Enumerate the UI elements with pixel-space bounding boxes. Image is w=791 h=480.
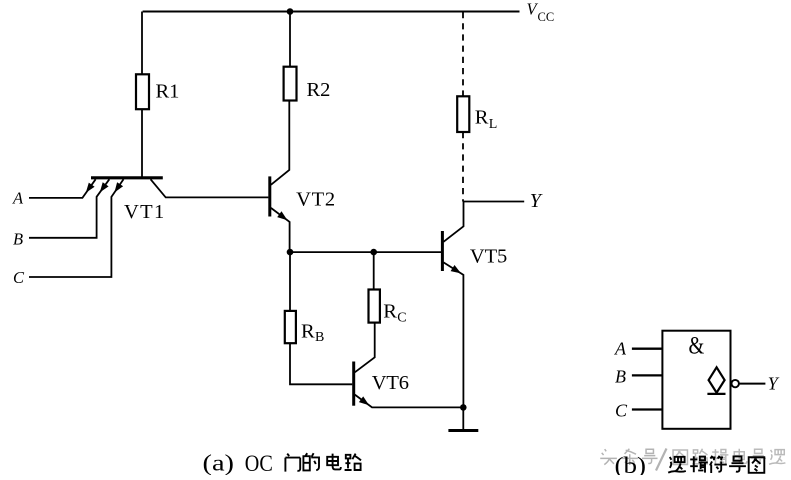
- label VCC: [527, 0, 555, 24]
- wire RL dashed top lead: [462, 12, 464, 96]
- wire VT6 collector to RC: [355, 323, 375, 373]
- node VT2 emitter junction: [287, 249, 294, 256]
- wire input A with VT1 emitter 1: [29, 179, 96, 198]
- logic gate box U1: [662, 331, 730, 429]
- wire VT6 emitter to ground node: [355, 395, 464, 408]
- svg-text:C: C: [615, 400, 628, 420]
- svg-text:B: B: [315, 330, 324, 345]
- wire ground lead: [462, 407, 464, 430]
- watermark trailing glyphs: [673, 449, 785, 465]
- transistor VT6 base bar: [352, 362, 355, 406]
- wire gate input C: [632, 408, 663, 410]
- wire R1 top lead: [141, 12, 143, 75]
- transistor VT2 base bar: [268, 176, 271, 216]
- node junction on VCC rail: [287, 8, 294, 15]
- wire RB bottom to VT6 base: [290, 343, 352, 384]
- node RC junction: [370, 249, 377, 256]
- arrowhead VT1 emitter 1: [86, 183, 95, 193]
- svg-text:Y: Y: [530, 190, 543, 212]
- wire node row to VT5 base: [290, 251, 443, 253]
- resistor RC: [369, 290, 380, 323]
- wire VT5 collector up to Y line: [444, 202, 464, 242]
- wire gate input A: [632, 348, 663, 350]
- svg-text:R: R: [475, 106, 489, 128]
- wire RL dashed bottom lead: [462, 132, 464, 202]
- wire gate input B: [632, 374, 663, 376]
- svg-text:R2: R2: [307, 79, 331, 101]
- inversion bubble: [732, 380, 739, 387]
- resistor RB: [285, 311, 296, 343]
- ground: [448, 429, 478, 432]
- svg-text:VT6: VT6: [372, 372, 409, 394]
- resistor R2: [284, 67, 297, 101]
- svg-text:VT2: VT2: [296, 189, 335, 211]
- svg-text:R: R: [301, 321, 315, 343]
- svg-text:L: L: [489, 117, 498, 132]
- wire VT5 emitter down to ground node: [444, 262, 464, 407]
- wire R1 bottom lead: [141, 109, 143, 177]
- wire output Y: [464, 201, 525, 203]
- label RB: [301, 321, 324, 345]
- wire RC top lead: [373, 252, 375, 289]
- arrowhead VT6 emitter: [359, 396, 369, 405]
- svg-text:VT1: VT1: [124, 201, 164, 223]
- wire VT1 collector to VT2 base: [151, 179, 269, 197]
- resistor RL: [457, 96, 469, 132]
- svg-text:VT5: VT5: [470, 246, 507, 268]
- svg-text:(a): (a): [203, 451, 235, 476]
- svg-text:B: B: [615, 366, 626, 386]
- svg-text:A: A: [12, 188, 24, 207]
- wire input B with VT1 emitter 2: [29, 179, 109, 238]
- transistor VT5 base bar: [441, 231, 444, 271]
- svg-text:OC: OC: [245, 451, 273, 475]
- wire RB top lead: [289, 252, 291, 311]
- wire VT2 emitter down to node: [271, 208, 290, 252]
- arrowhead VT2 emitter: [277, 211, 287, 220]
- svg-text:CC: CC: [538, 10, 555, 24]
- wire R2 top lead: [289, 12, 291, 67]
- arrowhead VT1 emitter 2: [100, 182, 109, 192]
- watermark slash: [656, 449, 667, 471]
- arrowhead VT5 emitter: [451, 265, 461, 273]
- caption (b) logic symbol: [615, 453, 765, 479]
- svg-text:A: A: [614, 339, 627, 359]
- wire VCC top rail: [143, 11, 520, 13]
- svg-text:C: C: [397, 311, 406, 326]
- open-collector diamond symbol: [709, 367, 725, 392]
- wire input C with VT1 emitter 3: [29, 179, 124, 277]
- wire VT2 collector to R2: [271, 101, 289, 185]
- arrowhead VT1 emitter 3: [114, 182, 123, 192]
- label RC: [383, 301, 406, 326]
- watermark gray toutiao text: [600, 449, 657, 465]
- svg-text:B: B: [13, 229, 23, 248]
- caption (a) OC gate circuit: [203, 451, 362, 477]
- svg-text:R1: R1: [156, 81, 180, 103]
- resistor R1: [136, 74, 149, 109]
- transistor VT1 base bar (multi-emitter): [91, 176, 163, 179]
- open-collector underline: [707, 393, 725, 395]
- svg-text:C: C: [13, 268, 25, 287]
- wire gate output Y: [739, 383, 765, 385]
- svg-text:&: &: [689, 332, 705, 359]
- svg-text:R: R: [383, 301, 397, 323]
- svg-text:(b): (b): [615, 453, 647, 475]
- node ground junction: [460, 404, 467, 411]
- label RL: [475, 106, 498, 132]
